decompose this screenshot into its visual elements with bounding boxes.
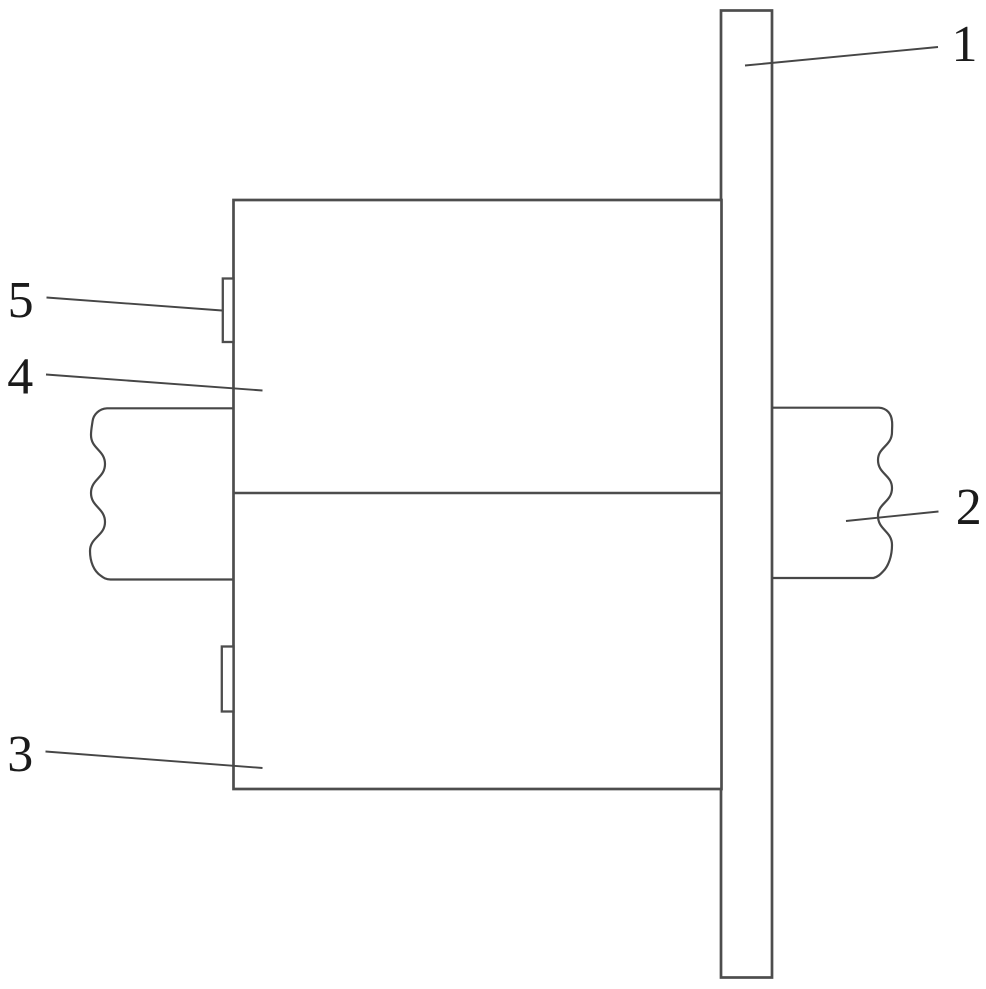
leader line 2 (846, 512, 939, 522)
leader line 4 (46, 375, 263, 391)
upper tab (part 5) (223, 279, 234, 343)
main housing block (parts 3 and 4) (234, 200, 722, 789)
divider between upper part 4 and lower part 3 (234, 492, 722, 494)
svg-text:3: 3 (7, 726, 33, 783)
leader line 1 (745, 47, 938, 66)
leader line 5 (47, 298, 223, 311)
svg-text:4: 4 (7, 349, 33, 406)
svg-text:2: 2 (956, 479, 982, 536)
svg-text:5: 5 (8, 272, 34, 329)
vertical mounting plate (part 1) (721, 11, 772, 978)
lower tab (222, 647, 234, 712)
svg-text:1: 1 (952, 16, 978, 73)
leader line 3 (46, 752, 263, 769)
shaft left segment with break (part 2 left) (90, 408, 234, 579)
shaft right segment with break (part 2 right) (772, 408, 892, 578)
